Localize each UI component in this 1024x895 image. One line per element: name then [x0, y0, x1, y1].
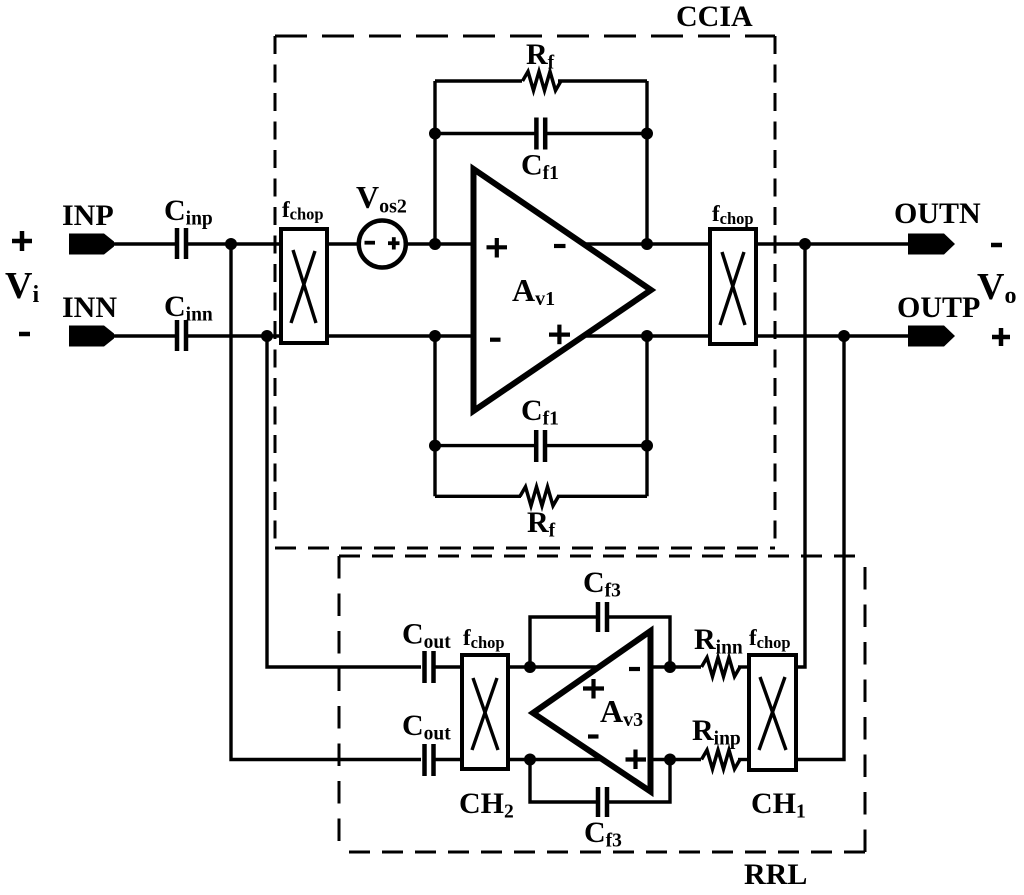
wire chopper to Vos2 — [327, 242, 359, 245]
wire Rinp to CH1 — [738, 758, 749, 761]
wire Rf bottom right — [557, 495, 647, 498]
wire feedback left vertical top — [433, 81, 436, 244]
voltage source V_os2 — [359, 221, 406, 268]
node OUTP junction — [838, 330, 850, 342]
wire Rf bottom left — [435, 495, 521, 498]
svg-text:OUTP: OUTP — [897, 291, 980, 324]
node INN junction — [261, 330, 273, 342]
wire Av3 to Rinn — [653, 665, 701, 668]
wire Cf3 bottom loop right — [607, 760, 670, 803]
node INP junction — [225, 238, 237, 250]
wire INN bottom — [111, 334, 177, 337]
wire Rf top right — [558, 79, 647, 82]
terminal INP — [69, 234, 114, 255]
wire Rinn to CH1 — [738, 665, 749, 668]
svg-text:CCIA: CCIA — [676, 0, 753, 33]
wire Cf1 top left — [435, 132, 536, 135]
wire Av3 to Rinp — [653, 758, 701, 761]
wire C_inn to chopper — [186, 334, 281, 337]
svg-text:INN: INN — [62, 291, 117, 324]
wire CH1 to OUTN drop — [796, 244, 805, 667]
wire Rf top left — [435, 79, 522, 82]
wire Cf3 bottom loop left — [530, 760, 598, 803]
wire Cf1 top right — [545, 132, 647, 135]
capacitor C_f1 top — [536, 118, 545, 150]
CCIA dashed box — [275, 36, 775, 548]
wire chopper2 to OUTP — [756, 334, 910, 337]
capacitor C_out bottom — [425, 744, 434, 776]
label - Vi — [19, 332, 30, 337]
wire op-amp output bottom — [584, 334, 710, 337]
op-amp A_v1 — [474, 169, 652, 411]
wire chopper to op-amp bottom — [327, 334, 472, 337]
wire INP top — [111, 242, 177, 245]
capacitor C_f3 top — [598, 602, 607, 632]
label - Vo — [991, 243, 1002, 248]
capacitor C_f1 bottom — [536, 430, 545, 462]
capacitor C_out top — [425, 651, 434, 683]
capacitor C_inp — [177, 228, 186, 259]
op-amp A_v3 — [533, 631, 651, 792]
wire CH2 to Av3 bottom — [508, 758, 601, 761]
chopper output fchop — [710, 229, 756, 344]
node Av3 out top — [524, 661, 536, 673]
node Av3 in top — [664, 661, 676, 673]
resistor R_f top — [523, 72, 562, 91]
wire C_inp to chopper — [186, 242, 281, 245]
node amp out bottom — [641, 330, 653, 342]
wire Cf1 bottom left — [435, 444, 535, 447]
resistor R_inp — [702, 750, 741, 769]
wire chopper2 to OUTN — [756, 242, 910, 245]
capacitor C_inn — [177, 320, 186, 351]
wire feedback right vertical bottom — [645, 336, 648, 496]
node amp in bottom — [429, 330, 441, 342]
terminal INN — [69, 326, 114, 347]
terminal OUTN — [908, 234, 955, 255]
wire feedback right vertical top — [645, 81, 648, 244]
svg-text:OUTN: OUTN — [894, 197, 981, 230]
RRL dashed box — [339, 556, 865, 852]
wire feedback left vertical bottom — [433, 336, 436, 496]
node amp out top — [641, 238, 653, 250]
resistor R_inn — [702, 658, 741, 677]
wire Cout bottom to CH2 — [434, 758, 462, 761]
label + Vo — [992, 328, 1010, 346]
wire INN node drop vertical — [267, 336, 421, 667]
node Cf1 top right — [641, 128, 653, 140]
svg-text:INP: INP — [62, 199, 114, 232]
node Vos2 out — [429, 238, 441, 250]
wire CH1 to OUTP drop — [796, 336, 844, 760]
node OUTN junction — [799, 238, 811, 250]
node Cf1 bottom right — [641, 440, 653, 452]
node Cf1 top left — [429, 128, 441, 140]
wire Vos2 to op-amp — [406, 242, 472, 245]
resistor R_f bottom — [520, 487, 559, 506]
node Av3 out bottom — [524, 754, 536, 766]
wire CH2 to Av3 top — [508, 665, 601, 668]
svg-text:RRL: RRL — [744, 858, 807, 891]
wire INP node drop vertical — [231, 244, 421, 760]
node Av3 in bottom — [664, 754, 676, 766]
wire Cf3 top loop right — [607, 617, 670, 667]
chopper CH2 — [462, 655, 508, 769]
node Cf1 bottom left — [429, 440, 441, 452]
chopper input fchop — [281, 229, 327, 343]
wire Cf3 top loop left — [530, 617, 598, 667]
wire op-amp output top — [583, 242, 710, 245]
wire Cf1 bottom right — [544, 444, 647, 447]
label + Vi — [12, 231, 32, 251]
capacitor C_f3 bottom — [598, 787, 607, 817]
wire Cout top to CH2 — [434, 665, 462, 668]
terminal OUTP — [908, 326, 955, 347]
chopper CH1 — [749, 655, 796, 770]
